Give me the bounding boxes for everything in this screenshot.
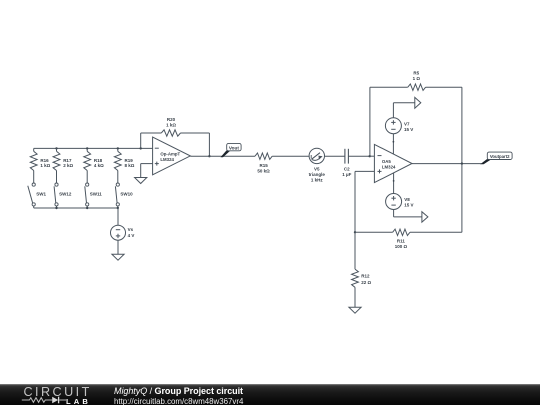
svg-text:4 V: 4 V	[128, 233, 135, 238]
svg-text:R19: R19	[125, 158, 134, 163]
svg-text:2 kΩ: 2 kΩ	[63, 163, 73, 168]
svg-text:V5: V5	[314, 167, 320, 172]
svg-text:LM324: LM324	[160, 157, 174, 162]
svg-text:SW10: SW10	[120, 192, 133, 197]
svg-text:V7: V7	[404, 121, 410, 126]
svg-text:4 kΩ: 4 kΩ	[94, 163, 104, 168]
svg-text:22 Ω: 22 Ω	[361, 280, 371, 285]
svg-text:SW12: SW12	[59, 192, 72, 197]
svg-text:50 kΩ: 50 kΩ	[257, 168, 270, 173]
svg-text:LM324: LM324	[382, 165, 396, 170]
svg-text:15 V: 15 V	[404, 127, 413, 132]
svg-text:OA5: OA5	[382, 159, 392, 164]
svg-text:1 kΩ: 1 kΩ	[40, 163, 50, 168]
svg-text:R20: R20	[167, 117, 176, 122]
svg-text:1 µF: 1 µF	[342, 172, 351, 177]
svg-text:V8: V8	[404, 197, 410, 202]
svg-text:SW11: SW11	[90, 192, 103, 197]
svg-text:C2: C2	[344, 167, 350, 172]
svg-text:100 Ω: 100 Ω	[395, 244, 408, 249]
svg-text:triangle: triangle	[309, 172, 326, 177]
svg-text:Vout: Vout	[229, 145, 240, 150]
svg-text:Voutpart2: Voutpart2	[490, 154, 510, 159]
svg-text:R5: R5	[413, 71, 419, 76]
svg-text:8 kΩ: 8 kΩ	[125, 163, 135, 168]
svg-text:Vs: Vs	[128, 227, 134, 232]
svg-text:R18: R18	[94, 158, 103, 163]
svg-text:R15: R15	[259, 163, 268, 168]
svg-text:R17: R17	[63, 158, 72, 163]
svg-text:R16: R16	[40, 158, 49, 163]
svg-text:1 Ω: 1 Ω	[413, 76, 421, 81]
svg-text:SW1: SW1	[36, 192, 46, 197]
svg-text:1 kHz: 1 kHz	[311, 177, 324, 182]
svg-text:R11: R11	[397, 239, 406, 244]
svg-text:Op-AmpT: Op-AmpT	[160, 151, 180, 156]
svg-text:15 V: 15 V	[404, 202, 413, 207]
svg-text:R12: R12	[361, 273, 370, 278]
svg-text:1 kΩ: 1 kΩ	[166, 122, 176, 127]
